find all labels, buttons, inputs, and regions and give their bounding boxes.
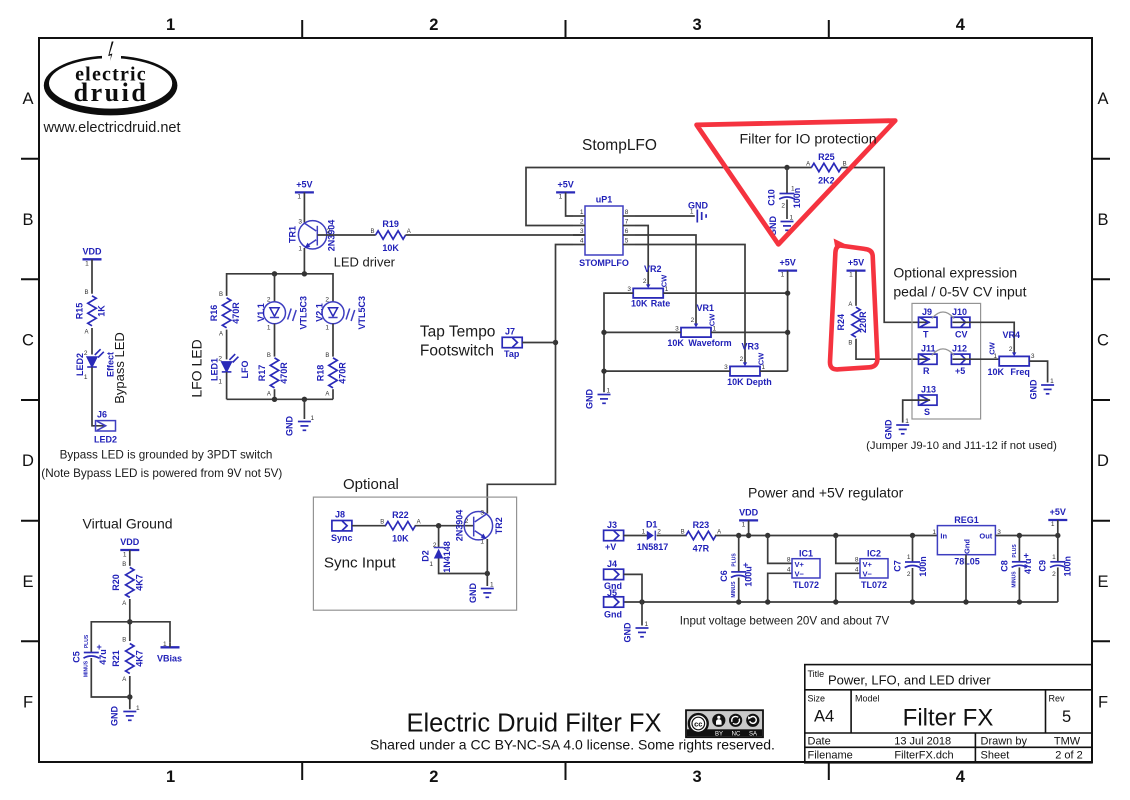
svg-text:C: C — [1097, 332, 1109, 350]
pin 8 — [623, 215, 635, 217]
wire R25 to J9 — [841, 168, 930, 323]
svg-text:Rev: Rev — [1049, 694, 1066, 704]
svg-text:A: A — [122, 601, 126, 607]
opamp IC2 TL072 — [855, 549, 888, 590]
svg-text:2N3904: 2N3904 — [454, 510, 464, 542]
svg-text:A: A — [407, 229, 411, 235]
diode D1 1N5817 — [637, 520, 669, 553]
CC badge — [686, 710, 763, 737]
svg-text:A: A — [122, 677, 126, 683]
logo lightning bolt — [108, 41, 115, 68]
svg-text:47u: 47u — [98, 649, 108, 665]
svg-text:+5V: +5V — [1050, 507, 1066, 517]
wire J7 to node — [522, 342, 555, 344]
svg-text:VR3: VR3 — [742, 342, 760, 352]
svg-text:IC2: IC2 — [867, 549, 881, 559]
svg-text:10K: 10K — [392, 534, 409, 544]
pin 5 — [623, 244, 635, 246]
power VDD virtual ground — [120, 537, 140, 559]
resistor R20 4K7 — [111, 562, 145, 607]
wire LED bottom rail — [227, 398, 333, 400]
junction V1.1 top — [272, 271, 277, 276]
resistor R21 4K7 — [111, 638, 145, 684]
wire pin7 to VR2 wiper — [635, 226, 648, 286]
wire VR1 pin1 — [711, 331, 788, 333]
svg-text:1: 1 — [781, 272, 785, 279]
wire REG1 out rail — [995, 535, 1057, 537]
svg-text:1: 1 — [905, 418, 909, 425]
svg-text:LED2: LED2 — [94, 435, 117, 445]
resistor R19 10K — [370, 219, 410, 253]
svg-text:10K: 10K — [382, 243, 399, 253]
junction J7 tap — [553, 340, 558, 345]
wire +5V to pin1 — [566, 192, 573, 216]
svg-text:A: A — [417, 520, 421, 526]
svg-text:+5: +5 — [955, 366, 965, 376]
svg-text:B: B — [380, 520, 384, 526]
pin 7 — [623, 225, 635, 227]
junction J4 gnd — [639, 599, 644, 604]
svg-text:V+: V+ — [863, 560, 873, 569]
svg-text:1: 1 — [429, 561, 433, 568]
svg-text:2: 2 — [465, 518, 469, 525]
svg-text:J8: J8 — [335, 510, 345, 520]
wire top rail to REG1 — [715, 535, 937, 537]
svg-text:1: 1 — [166, 768, 175, 786]
svg-text:C6: C6 — [719, 570, 729, 582]
wire pot gnd rail — [604, 293, 633, 392]
svg-text:2: 2 — [327, 228, 331, 235]
svg-text:VDD: VDD — [739, 508, 759, 518]
svg-text:Sheet: Sheet — [981, 749, 1010, 761]
svg-text:1: 1 — [665, 286, 669, 293]
junction VDD — [746, 533, 751, 538]
svg-text:100n: 100n — [1063, 556, 1073, 577]
wire R19 to uP1 pin3 — [406, 234, 586, 236]
svg-text:2: 2 — [267, 297, 271, 304]
svg-text:C9: C9 — [1038, 560, 1048, 572]
wire pin2 loop to filter node — [526, 168, 812, 226]
svg-text:4: 4 — [855, 566, 859, 573]
svg-text:2: 2 — [433, 542, 437, 549]
junction R17 bottom — [272, 397, 277, 402]
red blob corner overshoot — [834, 239, 845, 251]
svg-text:8: 8 — [855, 556, 859, 563]
LED LED2 Effect — [75, 349, 116, 381]
svg-text:B: B — [22, 211, 33, 229]
svg-text:R22: R22 — [392, 510, 409, 520]
svg-text:4K7: 4K7 — [134, 650, 144, 667]
top tick 1|2 — [301, 20, 303, 38]
svg-text:10K: 10K — [988, 367, 1005, 377]
svg-text:1: 1 — [123, 552, 127, 559]
svg-text:www.electricdruid.net: www.electricdruid.net — [43, 120, 181, 136]
svg-text:Size: Size — [808, 694, 826, 704]
LED LED1 LFO — [210, 354, 251, 385]
svg-text:A: A — [219, 332, 223, 338]
svg-text:Out: Out — [979, 532, 992, 541]
potentiometer VR4 10K Freq — [988, 330, 1035, 377]
svg-text:BY: BY — [715, 732, 723, 738]
wire VDD stub — [748, 520, 750, 535]
resistor R18 470R — [316, 353, 348, 398]
wire J4 to rail — [624, 574, 642, 602]
diode D2 1N4148 — [421, 541, 453, 573]
svg-text:REG1: REG1 — [954, 515, 979, 525]
potentiometer VR2 10K Rate — [627, 264, 670, 309]
svg-text:2: 2 — [580, 219, 584, 226]
svg-text:+V: +V — [605, 542, 616, 552]
junction +5V rail VR1 — [785, 330, 790, 335]
junction IC2 bottom — [833, 599, 838, 604]
wire VR1 pin3 — [604, 331, 681, 333]
connector J8 Sync — [331, 510, 353, 544]
svg-text:CV: CV — [955, 329, 968, 339]
capacitor C8 47u — [1000, 536, 1034, 603]
svg-text:GND: GND — [468, 583, 478, 604]
svg-text:Title: Title — [808, 669, 825, 679]
connector J7 Tap — [502, 327, 522, 360]
power +5V R24 — [847, 258, 866, 279]
wire TR1 emitter to rail — [303, 248, 305, 274]
svg-text:3: 3 — [675, 325, 679, 332]
svg-text:1: 1 — [932, 529, 936, 536]
svg-text:Freq: Freq — [1010, 367, 1030, 377]
power +5V out — [1048, 507, 1067, 528]
svg-text:1: 1 — [559, 194, 563, 201]
wire D1 to R23 — [657, 535, 687, 537]
junction gnd rail VR1 — [601, 330, 606, 335]
svg-text:1: 1 — [166, 16, 175, 34]
svg-text:1: 1 — [713, 325, 717, 332]
svg-text:Filter for IO protection: Filter for IO protection — [740, 132, 877, 148]
right tick D|E — [1092, 520, 1110, 522]
svg-text:TR2: TR2 — [494, 517, 504, 534]
junction C6 bottom — [736, 599, 741, 604]
svg-text:1: 1 — [267, 325, 271, 332]
svg-text:47u: 47u — [1023, 559, 1033, 575]
power VDD bypass — [82, 247, 102, 268]
connector J11 R — [919, 344, 938, 377]
wire C5 branch — [91, 622, 130, 653]
svg-text:PLUS: PLUS — [84, 634, 90, 648]
svg-text:1: 1 — [790, 215, 794, 222]
svg-text:B: B — [219, 292, 223, 298]
svg-text:4: 4 — [956, 768, 966, 786]
svg-text:B: B — [122, 562, 126, 568]
svg-text:470R: 470R — [338, 362, 348, 384]
wire +5V stub — [1057, 520, 1059, 536]
svg-text:1: 1 — [85, 261, 89, 268]
wire R16 to LED1 — [226, 330, 228, 360]
ground GND led network — [285, 415, 315, 436]
red triangle annotation filter for IO protection — [697, 121, 896, 245]
junction C8 bottom — [1017, 599, 1022, 604]
svg-text:A: A — [717, 530, 721, 536]
svg-text:Optional: Optional — [343, 476, 399, 493]
svg-text:1: 1 — [311, 415, 315, 422]
svg-text:VBias: VBias — [157, 654, 182, 664]
power +5V TR1 — [295, 180, 314, 201]
svg-text:pedal / 0-5V CV input: pedal / 0-5V CV input — [893, 284, 1026, 300]
svg-text:Drawn by: Drawn by — [981, 735, 1028, 747]
power VDD main — [739, 508, 759, 529]
svg-text:Footswitch: Footswitch — [420, 342, 494, 359]
svg-text:J12: J12 — [952, 344, 967, 354]
wire gnd stub — [303, 399, 305, 419]
bottom tick 3|4 — [828, 762, 830, 780]
svg-text:Sync: Sync — [331, 533, 353, 543]
svg-text:IC1: IC1 — [799, 549, 813, 559]
svg-text:+5V: +5V — [557, 180, 573, 190]
svg-text:3: 3 — [1031, 353, 1035, 360]
svg-text:1: 1 — [84, 374, 88, 381]
svg-text:+5V: +5V — [848, 258, 864, 268]
svg-text:MINUS: MINUS — [731, 581, 737, 598]
svg-text:R15: R15 — [75, 303, 85, 320]
svg-text:3: 3 — [580, 228, 584, 235]
svg-text:2: 2 — [781, 203, 785, 210]
transistor TR2 2N3904 — [454, 510, 504, 546]
svg-text:J7: J7 — [505, 327, 515, 337]
svg-text:13 Jul 2018: 13 Jul 2018 — [894, 735, 951, 747]
node R20/R21/C5/VBias — [127, 619, 132, 624]
svg-text:A: A — [325, 392, 329, 398]
svg-text:Power, LFO, and LED driver: Power, LFO, and LED driver — [828, 673, 991, 688]
svg-text:STOMPLFO: STOMPLFO — [579, 258, 629, 268]
jumper arc J11-J12 — [932, 349, 954, 356]
wire R18 to rail — [332, 389, 334, 399]
pin 1 — [573, 215, 585, 217]
svg-text:Filename: Filename — [808, 749, 853, 761]
svg-text:2: 2 — [1052, 571, 1056, 578]
capacitor C10 100n — [767, 168, 803, 220]
svg-text:1: 1 — [1050, 378, 1054, 385]
wire LED1 to rail — [226, 372, 228, 399]
svg-text:2: 2 — [643, 278, 647, 285]
wire pin5 to VR3 wiper — [635, 245, 745, 364]
svg-text:3: 3 — [693, 16, 702, 34]
pin 4 — [573, 244, 585, 246]
svg-text:A: A — [22, 90, 33, 108]
right tick B|C — [1092, 278, 1110, 280]
svg-text:druid: druid — [74, 78, 149, 107]
wire VR3 pin3 — [604, 370, 730, 372]
svg-text:Optional expression: Optional expression — [893, 265, 1017, 281]
svg-text:R18: R18 — [316, 365, 326, 382]
resistor R23 47R — [681, 520, 721, 554]
svg-text:8: 8 — [625, 209, 629, 216]
svg-text:1: 1 — [690, 209, 694, 216]
svg-text:+5V: +5V — [296, 180, 312, 190]
title block grid — [805, 665, 1092, 763]
wire +5V pot rail — [787, 271, 789, 372]
wire J13 to gnd — [903, 400, 930, 423]
svg-text:GND: GND — [110, 706, 120, 727]
svg-text:C10: C10 — [767, 189, 777, 206]
svg-text:Rate: Rate — [651, 299, 671, 309]
svg-text:A: A — [84, 330, 88, 336]
svg-text:R21: R21 — [111, 650, 121, 667]
wire V1.1 to R17 — [274, 324, 276, 357]
power +5V uP1 — [556, 180, 575, 201]
svg-text:10K: 10K — [667, 338, 684, 348]
svg-text:100n: 100n — [918, 556, 928, 577]
svg-text:VTL5C3: VTL5C3 — [357, 296, 367, 330]
svg-text:2: 2 — [429, 768, 438, 786]
svg-text:1: 1 — [580, 209, 584, 216]
svg-text:10K: 10K — [727, 377, 744, 387]
svg-text:3: 3 — [298, 219, 302, 226]
svg-text:1: 1 — [480, 539, 484, 546]
wire V1.1 drop — [274, 274, 276, 302]
svg-text:VDD: VDD — [82, 247, 102, 257]
svg-text:1: 1 — [1052, 554, 1056, 561]
svg-text:2: 2 — [429, 16, 438, 34]
wire R20 to node — [129, 599, 131, 641]
svg-text:1: 1 — [742, 522, 746, 529]
svg-text:VTL5C3: VTL5C3 — [299, 296, 309, 330]
wire TR1 base to R19 — [317, 234, 375, 236]
svg-text:100u: 100u — [744, 566, 754, 587]
junction C7 top — [910, 533, 915, 538]
vactrol V1.1 VTL5C3 — [256, 296, 309, 332]
wire VDD to R20 — [129, 550, 131, 566]
connector J6 LED2 — [94, 410, 117, 445]
ground GND pots — [584, 388, 610, 410]
svg-text:4K7: 4K7 — [134, 574, 144, 591]
resistor R15 1K — [75, 290, 107, 336]
svg-text:R: R — [923, 366, 930, 376]
wire C5 to gnd node — [91, 658, 130, 697]
svg-text:D: D — [22, 452, 34, 470]
resistor R25 2K2 — [806, 152, 846, 186]
svg-text:CW: CW — [707, 313, 716, 326]
svg-text:(Jumper J9-10 and J11-12 if no: (Jumper J9-10 and J11-12 if not used) — [866, 440, 1057, 452]
svg-text:V1.1: V1.1 — [256, 303, 266, 322]
svg-text:Bypass LED: Bypass LED — [112, 332, 127, 404]
svg-text:R17: R17 — [257, 365, 267, 382]
wire pin6 to VR1 wiper — [635, 235, 696, 324]
svg-text:D1: D1 — [646, 520, 658, 530]
svg-text:GND: GND — [1028, 379, 1038, 400]
svg-text:NC: NC — [732, 732, 741, 738]
svg-text:7: 7 — [625, 219, 629, 226]
wire VR2 pin1 — [663, 292, 787, 294]
svg-text:2: 2 — [907, 571, 911, 578]
svg-text:J11: J11 — [921, 344, 936, 354]
svg-text:TMW: TMW — [1054, 735, 1081, 747]
power +5V pots — [778, 258, 797, 279]
svg-text:Power and +5V regulator: Power and +5V regulator — [748, 485, 904, 501]
wire R24 to J11 — [856, 339, 930, 360]
junction +5V C9 — [1055, 533, 1060, 538]
junction emitter node — [485, 571, 490, 576]
svg-text:B: B — [84, 290, 88, 296]
svg-text:V+: V+ — [795, 560, 805, 569]
ground GND uP1 pin8 (horizontal) — [688, 201, 709, 223]
wire R17 to rail — [274, 389, 276, 399]
connector J10 CV — [951, 307, 970, 340]
svg-text:4: 4 — [956, 16, 966, 34]
svg-text:Waveform: Waveform — [688, 338, 731, 348]
junction IC2 top — [833, 533, 838, 538]
svg-text:+5V: +5V — [779, 258, 795, 268]
left tick E|F — [21, 640, 39, 642]
junction gnd rail VR3 — [601, 368, 606, 373]
wire vbias stub — [169, 643, 171, 648]
svg-text:J6: J6 — [97, 410, 107, 420]
svg-text:Gnd: Gnd — [604, 610, 622, 620]
svg-text:8: 8 — [787, 556, 791, 563]
svg-text:C8: C8 — [1000, 560, 1010, 572]
svg-text:B: B — [848, 341, 852, 347]
svg-text:SA: SA — [749, 732, 757, 738]
svg-text:R19: R19 — [382, 219, 399, 229]
wire IC1 pin8 branch — [768, 536, 792, 564]
wire +5V to R24 — [855, 271, 857, 306]
capacitor C5 47u — [72, 634, 109, 677]
resistor R17 470R — [257, 353, 289, 398]
svg-text:PLUS: PLUS — [1012, 544, 1018, 558]
svg-text:GND: GND — [623, 622, 633, 643]
svg-text:2: 2 — [740, 356, 744, 363]
svg-text:VR2: VR2 — [644, 264, 662, 274]
wire LED2 to J6 — [92, 367, 105, 426]
svg-text:1: 1 — [645, 621, 649, 628]
svg-text:6: 6 — [625, 228, 629, 235]
potentiometer VR1 10K Waveform — [667, 303, 731, 348]
svg-text:2 of 2: 2 of 2 — [1055, 749, 1083, 761]
wire J10 to VR4 wiper — [953, 322, 1015, 353]
junction C8 top — [1017, 533, 1022, 538]
ground GND VR4 — [1028, 378, 1054, 400]
wire D2 bottom to emitter node — [439, 559, 488, 574]
wire pin4 to tap node — [487, 245, 573, 514]
svg-text:1: 1 — [297, 194, 301, 201]
svg-text:VR1: VR1 — [697, 303, 715, 313]
svg-text:1: 1 — [218, 379, 222, 386]
svg-text:B: B — [681, 530, 685, 536]
svg-text:T: T — [923, 329, 929, 339]
junction TR1 emitter rail — [302, 271, 307, 276]
wire LED top rail — [227, 274, 333, 302]
svg-text:LED driver: LED driver — [334, 255, 396, 270]
top tick 3|4 — [828, 20, 830, 38]
wire bottom rail — [624, 601, 1058, 603]
svg-text:Filter FX: Filter FX — [903, 705, 994, 732]
pin 6 — [623, 234, 635, 236]
logo top gap for bolt — [102, 52, 121, 61]
svg-text:J10: J10 — [952, 307, 967, 317]
svg-text:R16: R16 — [209, 305, 219, 322]
svg-text:cc: cc — [694, 720, 702, 729]
wire TR2 emitter — [486, 539, 488, 586]
svg-text:F: F — [1098, 694, 1108, 712]
junction C10 node — [784, 165, 789, 170]
svg-text:3: 3 — [693, 768, 702, 786]
connector J5 Gnd — [604, 588, 624, 620]
svg-text:B: B — [325, 353, 329, 359]
junction IC1 bottom — [765, 599, 770, 604]
svg-text:1: 1 — [993, 353, 997, 360]
svg-text:2: 2 — [84, 350, 88, 357]
svg-text:C5: C5 — [72, 651, 82, 663]
svg-text:1: 1 — [607, 388, 611, 395]
svg-text:In: In — [940, 532, 947, 541]
svg-text:MINUS: MINUS — [84, 660, 90, 677]
svg-text:220R: 220R — [858, 311, 868, 333]
